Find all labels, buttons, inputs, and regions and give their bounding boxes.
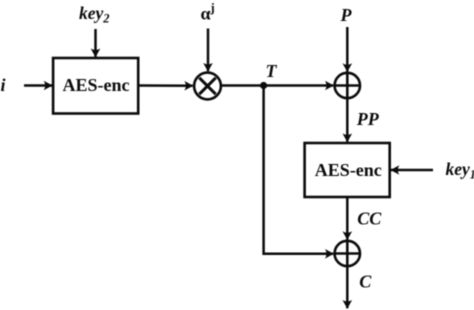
wire alpha^j to multiplier top: [207, 29, 210, 72]
multiplier node (circle-X): [194, 73, 221, 100]
wire XOR2 output C: [346, 266, 349, 308]
block AES-enc U1 (top-left): [53, 58, 138, 114]
wire key1 to U2 right: [391, 169, 433, 172]
svg-text:AES-enc: AES-enc: [63, 75, 130, 95]
svg-text:P: P: [340, 5, 353, 25]
wire T branch down and right to XOR2: [264, 86, 334, 254]
wire U1 to multiplier: [139, 84, 193, 87]
svg-text:αj: αj: [201, 1, 215, 24]
XOR node 1 (circle-plus, top-right): [335, 73, 360, 98]
wire P to XOR1 top: [346, 27, 349, 72]
wire key2 to U1 top: [94, 29, 97, 57]
wire i to U1: [24, 84, 52, 87]
svg-text:key1: key1: [446, 159, 474, 182]
svg-text:key2: key2: [79, 3, 110, 26]
svg-text:PP: PP: [356, 109, 380, 129]
svg-text:C: C: [359, 272, 372, 292]
svg-text:i: i: [1, 75, 6, 95]
svg-text:CC: CC: [357, 209, 382, 229]
wire U2 to XOR2 (CC): [346, 197, 349, 240]
junction node T dot: [260, 82, 267, 89]
wire multiplier to XOR1 (through node T): [222, 84, 334, 87]
block AES-enc U2 (lower-right): [305, 143, 390, 197]
svg-text:AES-enc: AES-enc: [315, 160, 382, 180]
svg-text:T: T: [266, 61, 278, 81]
XOR node 2 (circle-plus, bottom): [335, 241, 360, 266]
wire XOR1 to U2 (PP): [346, 98, 349, 142]
